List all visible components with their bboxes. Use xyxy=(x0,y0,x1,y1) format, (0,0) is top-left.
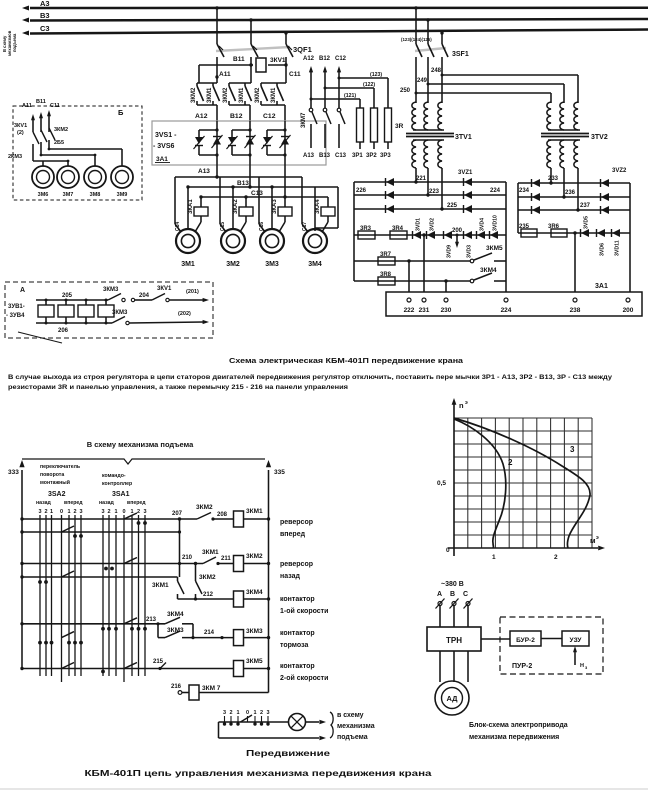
svg-text:3КА2: 3КА2 xyxy=(233,199,239,214)
wire arrow 201 xyxy=(203,298,209,302)
wire bus2 in B xyxy=(41,154,95,156)
contactor contact 3КМ1 (phase bank) xyxy=(244,83,246,86)
curve 3 xyxy=(454,418,590,548)
svg-text:3VS1 -: 3VS1 - xyxy=(155,132,177,139)
wire rung2 xyxy=(22,563,203,565)
coil 3KM7 xyxy=(189,685,199,700)
node B3 tap for 3QF1 xyxy=(249,18,252,21)
svg-text:С: С xyxy=(463,591,468,598)
diode rect1 right column xyxy=(464,191,472,199)
svg-text:214: 214 xyxy=(204,630,215,636)
diode rect2 right column xyxy=(601,206,609,214)
node C3 tap 3SF1 xyxy=(440,31,443,34)
wire feeds motor 3М3 xyxy=(258,177,260,224)
svg-text:3: 3 xyxy=(143,509,146,515)
svg-text:2: 2 xyxy=(554,554,558,561)
svg-text:3R8: 3R8 xyxy=(380,272,392,278)
svg-text:3КМ2: 3КМ2 xyxy=(191,87,197,103)
node rail dots xyxy=(20,517,23,520)
svg-text:224: 224 xyxy=(490,188,501,194)
svg-text:3: 3 xyxy=(38,509,41,515)
svg-text:вперед: вперед xyxy=(280,531,306,538)
svg-text:3КV1: 3КV1 xyxy=(270,57,286,64)
wire contact bank top link xyxy=(229,82,251,84)
wire 3TV2 sec lead 236 xyxy=(563,168,565,197)
wire TRN to motor xyxy=(467,651,469,682)
svg-text:208: 208 xyxy=(217,512,228,518)
curve 2 xyxy=(454,419,506,548)
contact 3KM7 pole xyxy=(323,108,327,112)
svg-text:3КА1: 3КА1 xyxy=(188,199,194,214)
panel box 3A1 xyxy=(386,292,642,316)
svg-text:236: 236 xyxy=(565,190,576,196)
wire brake bottom rail xyxy=(36,322,106,324)
breaker 3QF1 pole xyxy=(217,44,224,57)
svg-text:(2): (2) xyxy=(17,130,24,136)
terminal 230 xyxy=(444,298,448,302)
wire 3TV1 sec lead 225 xyxy=(441,168,443,209)
svg-text:3VD9: 3VD9 xyxy=(447,245,453,258)
svg-text:В13: В13 xyxy=(237,180,249,187)
node C phase on B11 line xyxy=(284,63,287,66)
diode 3VD4 xyxy=(477,231,485,239)
svg-text:2Б5: 2Б5 xyxy=(54,140,64,146)
svg-text:Б: Б xyxy=(118,108,124,117)
node A3 tap 3SF1 xyxy=(414,6,417,9)
wire switch column xyxy=(45,515,47,676)
diode rect2 left column xyxy=(532,206,540,214)
svg-text:3VD6: 3VD6 xyxy=(600,243,606,256)
svg-text:2-ой скорости: 2-ой скорости xyxy=(280,674,328,682)
overload relay 3КА2 xyxy=(239,207,253,216)
wire bank tick xyxy=(261,716,263,722)
transformer 3TV1 secondary windings xyxy=(412,140,416,168)
svg-text:3КV1: 3КV1 xyxy=(157,286,172,292)
motor 3М2 xyxy=(221,229,245,253)
diode 3VD11 xyxy=(612,229,620,237)
terminal 216 xyxy=(178,691,182,695)
svg-text:3КМ5: 3КМ5 xyxy=(486,245,503,252)
wire to terminal 230 xyxy=(445,281,447,292)
svg-text:(122): (122) xyxy=(363,82,375,88)
wire switch column xyxy=(115,515,117,676)
contact 3KM3 (lower) xyxy=(106,322,112,324)
wire rect2 right edge xyxy=(629,183,631,292)
resistor 3Р3 xyxy=(385,108,392,142)
svg-text:2: 2 xyxy=(229,710,232,716)
svg-text:(121): (121) xyxy=(344,93,356,99)
svg-text:контроллер: контроллер xyxy=(102,481,132,487)
wire rect1 left edge xyxy=(353,182,355,281)
svg-text:(202): (202) xyxy=(178,311,191,317)
node B13 feed xyxy=(248,185,251,188)
relay 3KV1 xyxy=(256,58,266,72)
svg-text:234: 234 xyxy=(519,188,530,194)
svg-text:249: 249 xyxy=(417,78,428,84)
svg-text:3КМ3: 3КМ3 xyxy=(246,628,263,635)
wire bus1 in B xyxy=(49,148,122,150)
svg-text:0,5: 0,5 xyxy=(437,480,446,487)
svg-text:3КМ3: 3КМ3 xyxy=(103,287,119,293)
svg-text:1: 1 xyxy=(253,710,256,716)
terminal 222 xyxy=(407,298,411,302)
contact 3KM4 xyxy=(470,279,474,283)
svg-text:2: 2 xyxy=(44,509,47,515)
svg-text:переключатель: переключатель xyxy=(40,464,80,470)
diode 3VD6 xyxy=(597,229,605,237)
wire left rail 333 xyxy=(21,470,23,670)
svg-text:В случае выхода из строя регул: В случае выхода из строя регулятора в це… xyxy=(8,374,613,381)
diode rect2 right column xyxy=(601,179,609,187)
dashed enclosure A xyxy=(5,282,213,338)
svg-text:Передвижение: Передвижение xyxy=(246,749,331,758)
wire rung5 xyxy=(22,668,234,670)
dashed enclosure B xyxy=(13,106,142,200)
node B3 tap 3SF1 xyxy=(426,18,429,21)
contactor contact 3КМ1 (phase bank) xyxy=(212,83,214,86)
svg-text:2: 2 xyxy=(508,458,513,467)
motor 3М3 xyxy=(260,229,284,253)
svg-text:2: 2 xyxy=(260,710,263,716)
wire rect1 row5 xyxy=(354,260,470,262)
resistor 3R5 xyxy=(521,229,537,237)
svg-text:2: 2 xyxy=(107,509,110,515)
svg-text:3КМ2: 3КМ2 xyxy=(199,574,216,581)
brace line under header xyxy=(22,459,265,464)
svg-text:2: 2 xyxy=(73,509,76,515)
svg-text:3КА4: 3КА4 xyxy=(315,199,321,214)
svg-text:БУР-2: БУР-2 xyxy=(516,637,535,644)
graph x axis xyxy=(448,547,598,549)
wire B11 link line xyxy=(199,64,253,66)
node rail rungs xyxy=(267,517,270,520)
svg-text:3VD5: 3VD5 xyxy=(584,216,590,229)
terminal 200 xyxy=(626,298,630,302)
wire bus3 in B xyxy=(33,160,68,162)
wire phase A drop to 3QF1 xyxy=(216,8,218,44)
wire rung4b xyxy=(158,637,165,639)
contact 3KM5 xyxy=(470,259,474,263)
svg-text:вперед: вперед xyxy=(127,500,146,506)
svg-text:С11: С11 xyxy=(50,103,60,109)
svg-text:3Р3: 3Р3 xyxy=(380,153,391,159)
svg-text:Схема электрическая КБМ-401П п: Схема электрическая КБМ-401П передвижени… xyxy=(229,356,464,365)
svg-text:3А1: 3А1 xyxy=(595,283,608,290)
wire rung3 feed xyxy=(22,576,178,578)
wire switch column xyxy=(102,515,104,676)
contact 3KM4 rung4 xyxy=(165,617,180,624)
svg-text:3КV1: 3КV1 xyxy=(14,123,27,129)
wire bank tick xyxy=(224,716,226,722)
diode rect1 right column xyxy=(464,178,472,186)
contact blade peredvizhenie xyxy=(241,715,253,722)
wire contact bank bottom link xyxy=(229,104,250,106)
svg-text:В12: В12 xyxy=(230,113,243,120)
diode rect1 left column xyxy=(386,178,394,186)
svg-text:0: 0 xyxy=(246,710,249,716)
svg-text:215: 215 xyxy=(153,659,164,665)
diode rect2 left column xyxy=(532,193,540,201)
wire lamp row xyxy=(219,721,289,723)
wire tap to motor xyxy=(121,149,123,165)
contactor contact 3КМ2 (phase bank) xyxy=(228,83,230,86)
motor AD outer xyxy=(435,681,469,715)
wire switch column xyxy=(51,515,53,676)
breaker 3QF1 pole xyxy=(251,44,258,57)
transformer 3TV2 secondary bar xyxy=(548,139,580,141)
wire drop to 3SF1 pole3 xyxy=(441,33,443,44)
wire switch column xyxy=(39,515,41,676)
svg-text:подъема: подъема xyxy=(12,33,17,52)
svg-text:248: 248 xyxy=(431,68,442,74)
wire 123 to resistor 3R3 xyxy=(339,77,388,79)
diode rect1 right column xyxy=(464,205,472,213)
svg-text:335: 335 xyxy=(274,469,285,476)
wire 3TV2 sec lead 237 xyxy=(577,168,579,210)
svg-text:211: 211 xyxy=(221,556,231,562)
wire phase B drop to 3QF1 xyxy=(250,20,252,44)
thyristor pair at 250 xyxy=(249,121,251,165)
wire contact bank bottom link xyxy=(261,104,285,106)
svg-text:подъема: подъема xyxy=(337,734,368,741)
svg-text:В3: В3 xyxy=(40,11,50,20)
node 214 xyxy=(220,636,223,639)
svg-text:3КМ5: 3КМ5 xyxy=(246,658,263,665)
transformer 3TV2 primary windings xyxy=(547,102,551,130)
svg-text:А11: А11 xyxy=(22,103,32,109)
svg-text:(123): (123) xyxy=(370,72,382,78)
wire TRN to motor xyxy=(439,651,441,682)
wire switch column xyxy=(74,515,76,676)
wire 200 tap arrow xyxy=(456,235,458,242)
node rail rung4 xyxy=(267,636,270,639)
svg-text:3SA2: 3SA2 xyxy=(48,491,66,498)
node rail rung5 xyxy=(267,667,270,670)
svg-text:С15: С15 xyxy=(220,222,226,231)
contact 3KM7 pole xyxy=(309,108,313,112)
svg-text:А11: А11 xyxy=(219,71,231,78)
wire join rung4 xyxy=(192,624,194,638)
svg-text:3: 3 xyxy=(266,710,269,716)
node A13 feed xyxy=(215,175,218,178)
svg-text:230: 230 xyxy=(441,307,452,314)
svg-text:0: 0 xyxy=(122,509,125,515)
svg-text:3КМ2: 3КМ2 xyxy=(196,504,213,511)
contactor contact 3КМ2 (phase bank) xyxy=(260,83,262,86)
svg-text:210: 210 xyxy=(182,555,193,561)
wire Uz arrow into UZU xyxy=(574,652,576,665)
svg-text:реверсор: реверсор xyxy=(280,519,313,526)
motor 3М8 xyxy=(84,166,106,188)
wire switch column xyxy=(131,515,133,676)
motor 3М1 xyxy=(176,229,200,253)
svg-text:3VD1: 3VD1 xyxy=(416,218,422,231)
svg-text:3КМ4: 3КМ4 xyxy=(480,267,497,274)
graph y axis xyxy=(453,404,455,556)
wire bank tick xyxy=(230,716,232,722)
contactor contact 3КМ1 (phase bank) xyxy=(276,83,278,86)
wire bus A13 xyxy=(175,176,302,178)
svg-text:(201): (201) xyxy=(186,289,199,295)
svg-text:- 3УВ4: - 3УВ4 xyxy=(6,313,25,319)
svg-text:3SA1: 3SA1 xyxy=(112,491,130,498)
block UZU xyxy=(562,631,589,646)
svg-text:0: 0 xyxy=(60,509,63,515)
wire contact bank top link xyxy=(261,82,286,84)
svg-text:3VD4: 3VD4 xyxy=(480,218,486,231)
coil 3KM3 xyxy=(234,630,244,646)
svg-text:поворота: поворота xyxy=(40,472,64,478)
svg-text:3М4: 3М4 xyxy=(308,261,322,268)
diode rect1 left column xyxy=(386,205,394,213)
wire brake top rail xyxy=(36,299,105,301)
svg-text:3VD2: 3VD2 xyxy=(430,218,436,231)
wire 3SF1 pole down xyxy=(441,57,443,75)
wire bus B13 xyxy=(188,186,338,188)
svg-text:200: 200 xyxy=(623,307,634,314)
svg-text:216: 216 xyxy=(171,684,182,690)
svg-text:А12: А12 xyxy=(195,113,208,120)
svg-text:3VD11: 3VD11 xyxy=(615,240,621,256)
coil 3KM5 xyxy=(234,661,244,677)
resistor 3R3 xyxy=(358,231,375,239)
wire right rail 335 xyxy=(268,470,270,693)
svg-text:3КА3: 3КА3 xyxy=(272,199,278,214)
svg-text:С3: С3 xyxy=(40,24,50,33)
svg-text:1: 1 xyxy=(492,554,496,561)
svg-text:3КМ 7: 3КМ 7 xyxy=(202,685,221,692)
svg-text:3КМ1: 3КМ1 xyxy=(246,508,263,515)
contact 3KM2 rung1 xyxy=(197,513,211,520)
resistor 3R4 xyxy=(390,231,407,239)
wire phase arrow up xyxy=(32,120,34,132)
svg-text:В схему механизма подъема: В схему механизма подъема xyxy=(87,440,194,449)
svg-text:назад: назад xyxy=(36,500,51,506)
wire rung4a xyxy=(22,623,165,625)
svg-text:(123)(124)(125): (123)(124)(125) xyxy=(401,37,432,42)
wire tap to motor xyxy=(67,161,69,165)
svg-text:2КМ3: 2КМ3 xyxy=(8,154,22,160)
wire 3SF1 pole down xyxy=(427,57,429,84)
dashed box PUR-2 xyxy=(500,617,603,674)
svg-text:206: 206 xyxy=(58,328,69,334)
svg-text:В11: В11 xyxy=(233,56,245,63)
resistor 3Р1 xyxy=(357,108,364,142)
svg-text:3QF1: 3QF1 xyxy=(293,45,312,54)
svg-text:А3: А3 xyxy=(40,0,50,8)
wire 3KM7 to rail xyxy=(199,692,269,694)
wire rect2 row2 xyxy=(518,196,630,198)
wire rect1 row4 (diode string) xyxy=(354,234,506,236)
wire switch column xyxy=(80,515,82,676)
svg-text:УЗУ: УЗУ xyxy=(570,637,583,644)
diode rect2 left column xyxy=(532,179,540,187)
node 207 xyxy=(178,517,181,520)
svg-text:контактор: контактор xyxy=(280,596,315,603)
wire to terminal 222 xyxy=(408,261,410,292)
svg-text:А12: А12 xyxy=(303,56,315,62)
svg-text:3VZ2: 3VZ2 xyxy=(612,168,627,174)
node C3 tap for 3QF1 xyxy=(284,31,287,34)
wire 248 to 3TV2 xyxy=(442,74,578,76)
resistor 3Р2 xyxy=(371,108,378,142)
svg-text:А: А xyxy=(20,287,25,294)
wire power bus C3 xyxy=(30,30,648,34)
wire 207 vertical xyxy=(179,519,181,577)
svg-text:~380 В: ~380 В xyxy=(441,581,464,588)
rectifier 3УВ4 xyxy=(98,305,114,317)
svg-text:Блок-схема электропривода: Блок-схема электропривода xyxy=(469,722,568,729)
wire B13 wrap to motor 3M4 xyxy=(337,187,339,228)
contact 3KV1 (brake row) xyxy=(150,299,152,301)
svg-text:вперед: вперед xyxy=(64,500,83,506)
wire 216 stub xyxy=(182,692,189,694)
switch phase input xyxy=(452,602,456,606)
wire rect1 row1 xyxy=(354,181,506,183)
wire arrow 202 xyxy=(203,320,209,324)
svg-text:231: 231 xyxy=(419,307,430,314)
svg-text:213: 213 xyxy=(146,617,157,623)
svg-text:3VD10: 3VD10 xyxy=(493,215,499,231)
svg-text:3М2: 3М2 xyxy=(226,261,240,268)
svg-text:250: 250 xyxy=(400,88,411,94)
svg-text:назад: назад xyxy=(99,500,114,506)
svg-text:резисторами 3R и панелью управ: резисторами 3R и панелью управления, а т… xyxy=(8,385,349,391)
contact blades in enclosure B xyxy=(33,132,39,144)
wire contact bank top link xyxy=(197,82,217,84)
wire 3TV2 sec lead 233 xyxy=(550,168,552,183)
svg-text:221: 221 xyxy=(416,176,427,182)
wire riser with up arrow xyxy=(310,70,312,108)
curly brace to hoist circuit xyxy=(330,712,333,738)
wire bank tick xyxy=(247,716,249,722)
svg-text:3: 3 xyxy=(79,509,82,515)
wire bank tick xyxy=(267,716,269,722)
svg-text:3Р1: 3Р1 xyxy=(352,153,363,159)
svg-text:АД: АД xyxy=(446,694,458,703)
wire 250 to 3TV2 xyxy=(416,92,551,94)
contact blades at 0 columns xyxy=(124,513,137,519)
svg-text:тормоза: тормоза xyxy=(280,642,308,649)
transformer 3TV1 primary bar xyxy=(413,129,444,131)
wire drop to 3SF1 pole1 xyxy=(415,8,417,44)
wire bus C13 xyxy=(201,196,328,198)
wire bank tick xyxy=(237,716,239,722)
svg-text:212: 212 xyxy=(203,592,214,598)
breaker 3QF1 pole xyxy=(286,44,293,57)
svg-text:В: В xyxy=(450,591,455,598)
terminal 231 xyxy=(422,298,426,302)
svg-text:3КМ2: 3КМ2 xyxy=(54,127,68,133)
svg-text:ПУР-2: ПУР-2 xyxy=(512,663,532,670)
svg-text:3КМ1: 3КМ1 xyxy=(152,582,169,589)
svg-text:э: э xyxy=(465,400,468,406)
position dots under rungs xyxy=(137,521,141,525)
wire phase C drop to 3QF1 xyxy=(285,33,287,44)
wire 3SF1 pole down xyxy=(415,57,417,93)
svg-text:222: 222 xyxy=(404,307,415,314)
svg-text:3VD3: 3VD3 xyxy=(467,245,473,258)
diode 3VD3 xyxy=(464,231,472,239)
wire switch column xyxy=(108,515,110,676)
svg-text:224: 224 xyxy=(501,307,512,314)
svg-text:3КМ1: 3КМ1 xyxy=(207,87,213,103)
svg-text:В11: В11 xyxy=(36,99,46,105)
svg-text:3КМ1: 3КМ1 xyxy=(271,87,277,103)
svg-text:3SF1: 3SF1 xyxy=(452,51,469,58)
contactor contact 3КМ2 (phase bank) xyxy=(196,83,198,86)
svg-text:3TV1: 3TV1 xyxy=(455,134,472,141)
